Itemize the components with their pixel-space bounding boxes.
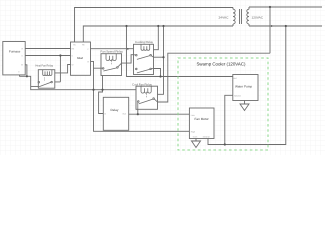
wire cool fan relay NO contact up and across top	[158, 53, 271, 102]
relay Fan Speed Relay	[101, 50, 124, 76]
wire furnace C to tstat	[25, 55, 70, 57]
svg-text:Delay: Delay	[111, 108, 119, 112]
wire fan speed relay bottom pin down to delay in	[99, 75, 104, 113]
wire furnace R to tstat Rh	[25, 48, 70, 50]
svg-text:Out: Out	[123, 113, 127, 116]
neutral symbol under fan motor	[192, 141, 201, 148]
wire water pump bottom to neutral symbol	[244, 101, 246, 105]
wire neutral from 120VAC down right side to fan motor neutral	[208, 26, 286, 145]
wire tstat W to heat fan relay coil right	[55, 65, 71, 73]
relay Cool Fan Relay	[132, 82, 158, 109]
svg-text:Fan Motor: Fan Motor	[195, 117, 209, 121]
box tstat	[71, 42, 91, 75]
svg-text:Fan Speed Relay: Fan Speed Relay	[101, 50, 124, 54]
relay Cooling Relay (DPDT)	[134, 40, 154, 74]
wire fan motor com to neutral symbol	[195, 139, 197, 142]
wire tstat Rc to transformer top	[75, 8, 234, 43]
wire branch up to cool fan relay common	[137, 102, 139, 114]
wire cooling relay pole2 right down to pump hot run	[154, 69, 161, 77]
green dashed box Swamp Cooler	[178, 58, 268, 150]
box Water Pump	[233, 75, 258, 101]
small arrowheads	[127, 25, 273, 50]
svg-text:Neutral: Neutral	[234, 94, 241, 97]
wire long drop to fan motor high	[94, 68, 190, 131]
svg-text:Hot: Hot	[233, 77, 237, 80]
wire furnace bottom pin to heat fan relay common and long run to cool fan relay coil	[20, 75, 136, 90]
svg-text:Rc: Rc	[73, 44, 76, 47]
wire cooling relay pole1 NO right	[154, 56, 164, 58]
wire transformer 120VAC top	[249, 6, 322, 8]
wire vertical drop at x=270	[269, 7, 271, 53]
wire fan speed relay NO to cooling relay	[122, 55, 134, 63]
svg-text:Furnace: Furnace	[9, 50, 21, 54]
svg-text:Swamp Cooler (120VAC): Swamp Cooler (120VAC)	[197, 62, 247, 67]
transformer	[233, 7, 249, 26]
wire tstat Y to cooling relay coil left	[91, 48, 134, 50]
svg-text:Cooling Relay: Cooling Relay	[135, 40, 154, 44]
wire tstat Rh to transformer bottom 24VAC	[83, 26, 233, 42]
svg-text:24VAC: 24VAC	[219, 15, 229, 19]
svg-text:Low: Low	[191, 114, 195, 117]
wire delay out to fan motor low	[129, 113, 190, 115]
wire water pump neutral to neutral run	[225, 95, 233, 144]
svg-text:Neutral: Neutral	[203, 136, 210, 139]
svg-text:Heat Fan Relay: Heat Fan Relay	[36, 64, 54, 68]
svg-text:120VAC: 120VAC	[252, 15, 264, 19]
svg-text:Com: Com	[193, 136, 198, 139]
box Delay	[103, 97, 128, 130]
relay Heat Fan Relay	[36, 64, 55, 89]
wire 24VAC return to cool fan relay coil right	[158, 26, 164, 94]
svg-text:tstat: tstat	[77, 56, 83, 60]
svg-text:Water Pump: Water Pump	[235, 85, 252, 89]
box Furnace	[3, 42, 25, 75]
svg-text:W: W	[21, 64, 23, 67]
wire tstat G down to fan speed relay common	[91, 61, 102, 68]
wire 24VAC drop to water pump hot	[127, 26, 233, 77]
svg-text:W: W	[72, 64, 74, 67]
wire furnace W down to common run	[25, 65, 27, 77]
wire transformer 120VAC bottom	[249, 25, 322, 27]
box Fan Motor	[189, 108, 214, 139]
wire 24VAC return to cooling relay coil right	[154, 26, 159, 50]
neutral symbol under water pump	[240, 104, 249, 111]
wire heat fan relay NO contact riser to furnace C net	[55, 56, 61, 82]
